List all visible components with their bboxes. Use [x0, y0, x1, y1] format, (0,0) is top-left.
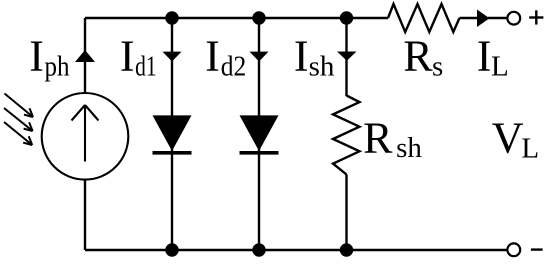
svg-text:sh: sh	[396, 132, 422, 164]
wire top bus	[85, 17, 388, 19]
resistor Rs	[388, 4, 460, 32]
node junction dot bottom D2	[252, 243, 265, 256]
label Id2	[205, 32, 246, 83]
svg-text:R: R	[403, 32, 433, 81]
current source internal arrow	[72, 105, 99, 162]
node junction dot bottom D1	[165, 243, 178, 256]
resistor Rsh	[333, 96, 360, 175]
light arrow 2	[4, 108, 33, 131]
current arrow IL	[477, 10, 490, 28]
svg-text:I: I	[294, 32, 309, 81]
current arrow Iph	[75, 50, 95, 62]
wire bottom bus	[85, 249, 507, 251]
label Rs	[403, 32, 443, 83]
diode D2	[240, 115, 279, 152]
svg-text:I: I	[477, 32, 492, 81]
light arrow 3	[4, 122, 32, 145]
svg-text:d1: d1	[135, 50, 157, 82]
wire diode D1 branch	[171, 18, 173, 250]
node junction dot top D2	[252, 11, 265, 24]
current arrow Id2	[250, 52, 269, 62]
node junction dot bottom shunt	[340, 243, 353, 256]
label VL	[492, 113, 539, 164]
label Iph	[29, 32, 70, 83]
terminal negative circle	[507, 243, 520, 256]
svg-text:I: I	[205, 32, 220, 81]
label Id1	[120, 32, 157, 83]
svg-text:R: R	[363, 114, 393, 163]
svg-text:V: V	[492, 113, 524, 162]
svg-text:I: I	[120, 32, 135, 81]
node junction dot top shunt	[340, 11, 353, 24]
current source Iph circle	[42, 93, 129, 180]
wire left vertical upper	[84, 18, 86, 94]
node junction dot top D1	[165, 11, 178, 24]
label Ish	[294, 32, 335, 83]
svg-text:s: s	[432, 50, 443, 82]
svg-text:L: L	[521, 132, 539, 164]
wire left vertical lower	[84, 180, 86, 250]
wire diode D2 branch	[258, 18, 260, 250]
svg-text:ph: ph	[45, 50, 70, 82]
svg-text:L: L	[491, 50, 509, 82]
terminal positive circle	[507, 12, 520, 25]
wire Rs to arrow	[460, 17, 478, 19]
label Rsh	[363, 114, 422, 165]
label IL	[477, 32, 509, 83]
svg-text:sh: sh	[309, 50, 335, 82]
plus sign	[529, 10, 543, 24]
diode D1	[153, 115, 192, 152]
svg-text:I: I	[29, 32, 44, 81]
current arrow Id1	[163, 52, 182, 62]
minus sign	[531, 248, 543, 250]
current arrow Ish	[337, 52, 357, 61]
wire shunt branch upper	[345, 18, 347, 96]
wire arrow to terminal	[488, 17, 507, 19]
wire shunt branch lower	[345, 175, 347, 251]
svg-text:d2: d2	[221, 50, 247, 82]
light arrow 1	[5, 94, 34, 118]
